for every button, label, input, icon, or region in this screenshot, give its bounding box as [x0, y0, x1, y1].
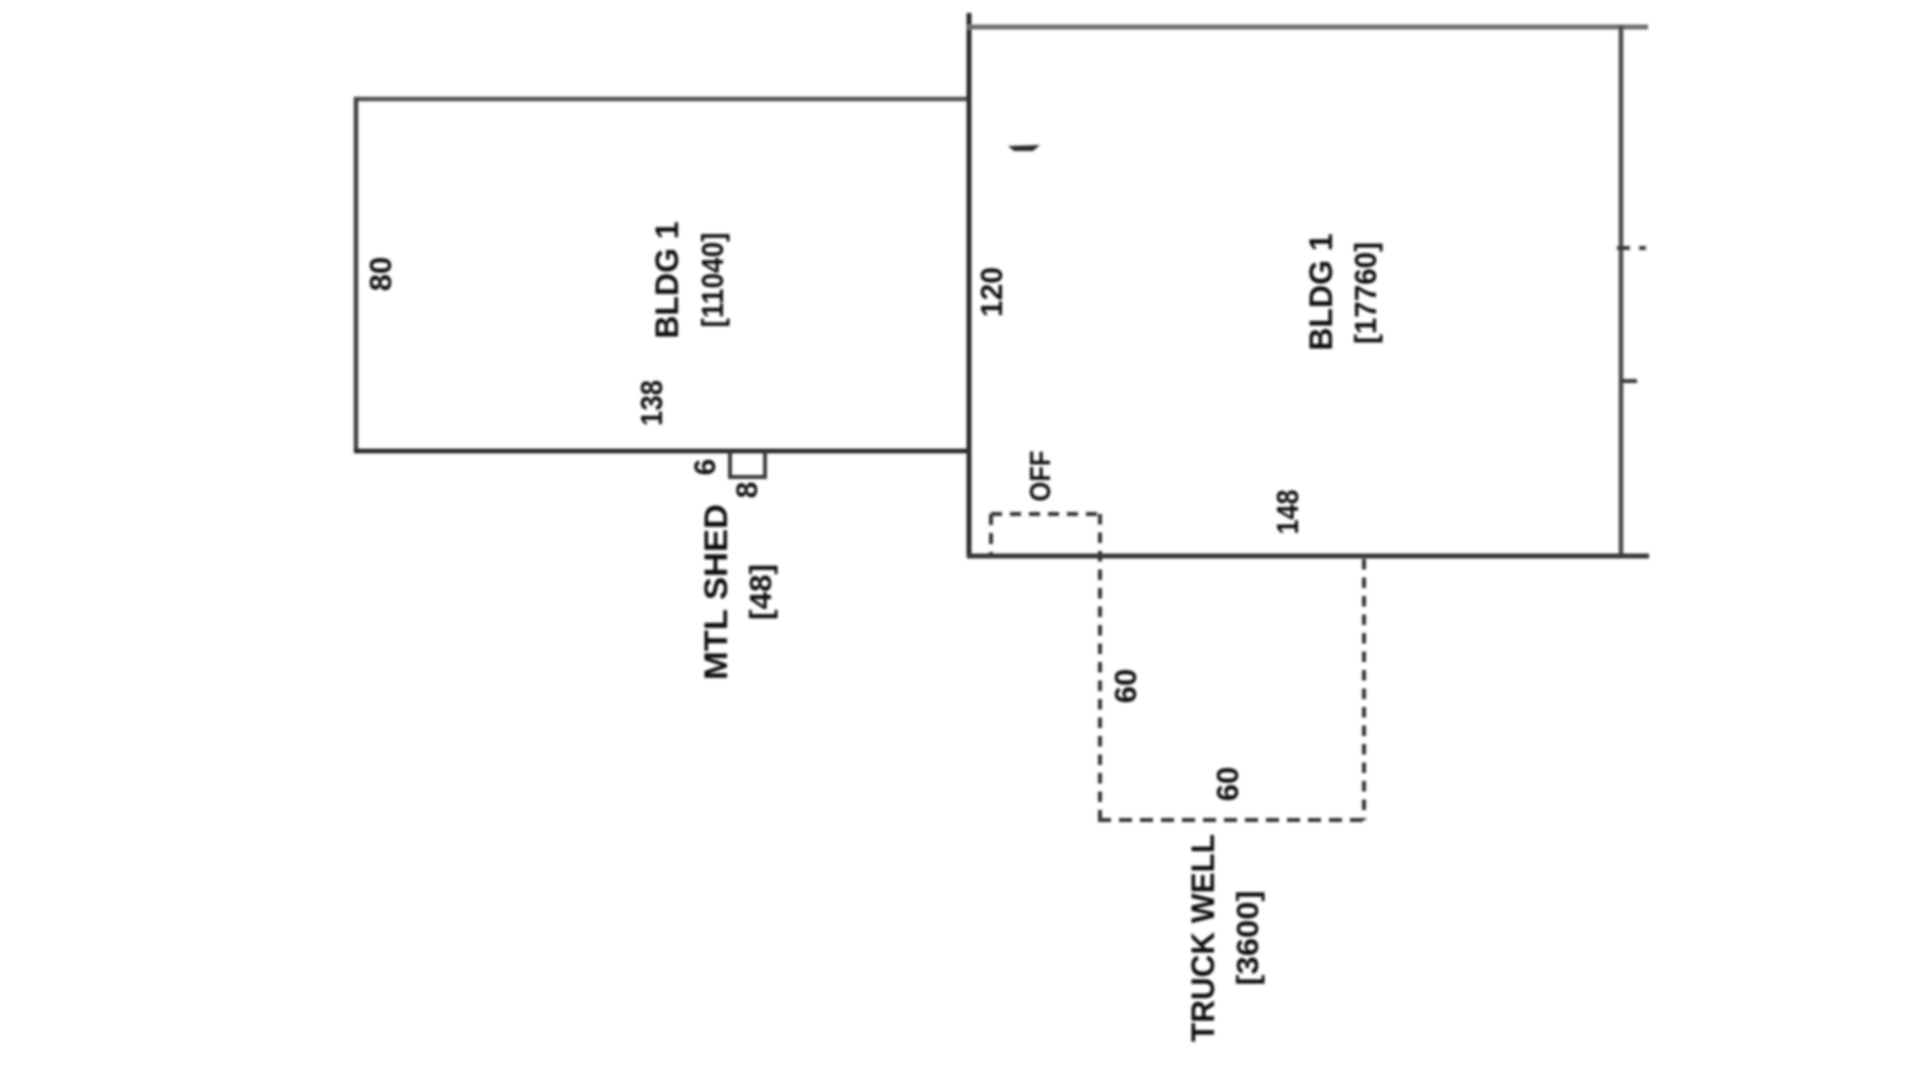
building 2 bottom wall (dim 148)	[967, 554, 1649, 559]
mtl shed right wall	[763, 451, 767, 477]
mtl shed bottom wall (dim 8)	[728, 475, 767, 479]
svg-text:[48]: [48]	[743, 564, 778, 620]
off area dashed left edge	[989, 514, 993, 554]
svg-text:60: 60	[1108, 669, 1143, 703]
building 1 left outline bottom wall (dim 138)	[354, 449, 970, 454]
svg-text:60: 60	[1210, 767, 1245, 801]
svg-text:120: 120	[974, 267, 1009, 317]
mtl shed left wall (dim 6)	[728, 451, 732, 477]
svg-text:OFF: OFF	[1025, 451, 1057, 502]
building 2 left wall (dim 120)	[967, 13, 972, 557]
svg-text:80: 80	[363, 257, 398, 291]
stray dash mark lower (right of building 2 right wall)	[1621, 379, 1637, 383]
stray dash mark upper (right of building 2 right wall)	[1617, 246, 1646, 250]
svg-text:MTL SHED: MTL SHED	[698, 504, 734, 680]
svg-text:148: 148	[1270, 490, 1305, 535]
svg-text:BLDG 1: BLDG 1	[649, 221, 685, 338]
building 1 left outline top wall	[354, 97, 970, 102]
building 2 top wall	[967, 25, 1648, 30]
truck well dashed bottom edge (dim 60)	[1098, 818, 1366, 822]
truck well dashed right edge	[1362, 559, 1366, 820]
stray cursor mark near building 2 left wall	[1008, 145, 1040, 151]
svg-text:[11040]: [11040]	[695, 233, 730, 328]
building 2 right wall	[1619, 25, 1624, 557]
svg-text:[17760]: [17760]	[1348, 242, 1383, 344]
svg-text:138: 138	[634, 380, 669, 426]
svg-text:[3600]: [3600]	[1230, 891, 1265, 986]
svg-text:TRUCK WELL: TRUCK WELL	[1185, 834, 1221, 1042]
svg-text:8: 8	[731, 482, 764, 499]
svg-text:6: 6	[689, 459, 722, 476]
truck well dashed left edge (dim 60)	[1098, 514, 1102, 820]
building 1 left outline left wall (dim 80)	[354, 97, 359, 451]
svg-text:BLDG 1: BLDG 1	[1303, 233, 1339, 350]
off area dashed top edge	[991, 512, 1100, 516]
